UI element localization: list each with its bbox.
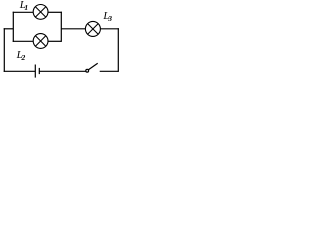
wire: left bus vertical (parallel branch join, left side) [12, 12, 14, 42]
wire: L2 branch left segment [13, 40, 34, 42]
svg-text:L1: L1 [19, 0, 28, 12]
wire: right rail vertical [117, 28, 119, 72]
wire: middle wire from right bus to lamp L3 [61, 28, 85, 30]
lamp L1: cross X [35, 7, 45, 17]
lamp L2: circle [33, 34, 48, 49]
battery cell B1: short plate (right) [38, 68, 40, 74]
battery cell B1: long plate (left) [34, 65, 36, 78]
wire: left rail vertical down to bottom [3, 28, 5, 72]
wire: left mid stub from node to left rail [4, 28, 14, 30]
svg-text:L2: L2 [16, 49, 26, 62]
wire: bottom wire from switch to right rail [100, 70, 119, 72]
wire: top right wire from lamp L3 to right rail [100, 28, 119, 30]
wire: bottom wire from left rail to battery [4, 70, 35, 72]
wire: L1 branch left segment [13, 11, 34, 13]
wire: bottom wire from battery to switch [39, 70, 86, 72]
svg-text:L3: L3 [102, 10, 112, 23]
lamp L3: circle [85, 21, 100, 36]
wire: L1 branch right segment [48, 11, 62, 13]
wire: L2 branch right segment [48, 40, 61, 42]
lamp L3: cross X [88, 24, 99, 35]
wire: right bus vertical (parallel branch join, right side) [60, 12, 62, 42]
lamp L1: circle [33, 4, 48, 19]
lamp L2: cross X [35, 36, 45, 46]
switch S1: pivot circle [86, 69, 89, 72]
switch S1: open lever arm [88, 63, 97, 69]
